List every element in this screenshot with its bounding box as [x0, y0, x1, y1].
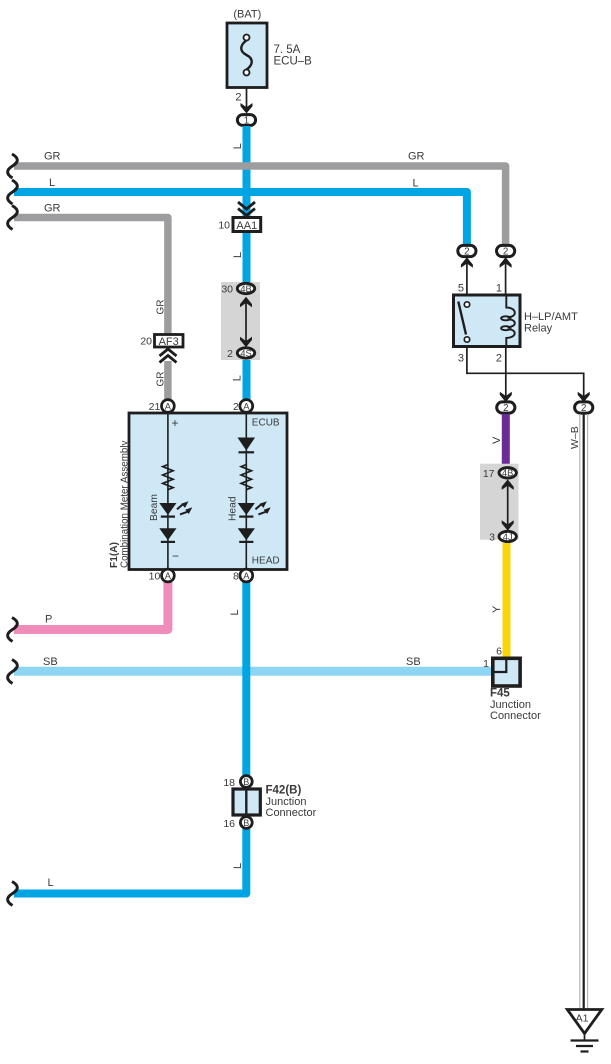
svg-text:A: A — [243, 571, 250, 581]
svg-text:(BAT): (BAT) — [233, 9, 261, 21]
wire W-B (white with black stripe) — [580, 414, 588, 1014]
svg-text:4B: 4B — [240, 284, 251, 294]
svg-text:A: A — [243, 402, 250, 412]
wire L vertical (4S to meter pin 2) — [243, 358, 251, 400]
wire pin5 — [466, 258, 468, 296]
SECTION: horizontal bus wires — [8, 126, 506, 894]
svg-text:GR: GR — [156, 300, 167, 315]
SECTION: meter — [109, 400, 287, 583]
wire pin1 — [505, 258, 507, 296]
svg-text:GR: GR — [44, 203, 61, 215]
resistor left (Beam) — [163, 465, 173, 490]
svg-text:L: L — [232, 143, 244, 149]
junction connector F45 box — [493, 658, 520, 686]
break squiggle P — [8, 618, 18, 642]
svg-text:18: 18 — [223, 777, 235, 789]
svg-text:10: 10 — [218, 220, 230, 232]
svg-text:3: 3 — [489, 532, 495, 544]
break squiggle GR second — [8, 206, 18, 230]
double chevron up below AF3 — [160, 349, 177, 363]
svg-text:L: L — [231, 375, 243, 381]
svg-text:Beam: Beam — [149, 494, 160, 521]
svg-text:1: 1 — [483, 658, 489, 670]
svg-text:3: 3 — [458, 353, 464, 365]
F45 inner quadrant mark — [495, 660, 507, 673]
break squiggle GR top — [8, 154, 18, 178]
wire pin2 down — [505, 347, 507, 398]
svg-text:HEAD: HEAD — [252, 555, 280, 566]
svg-text:SB: SB — [406, 656, 421, 668]
svg-text:Combination Meter Assembly: Combination Meter Assembly — [119, 440, 130, 568]
connector box AF3 — [155, 335, 184, 348]
pin 2 circle A — [240, 400, 253, 413]
svg-text:21: 21 — [149, 401, 161, 413]
svg-text:A: A — [165, 402, 172, 412]
svg-text:F45: F45 — [490, 688, 510, 700]
wire GR top row to relay — [14, 166, 506, 245]
diode D3 (right bottom) — [238, 528, 255, 542]
oval connector 4B (30) — [237, 283, 254, 293]
oval connector 2 (GR into relay pin 1) — [497, 245, 515, 256]
oval connector 2 (L into relay pin 5) — [458, 245, 476, 256]
oval connector 2 (V) — [497, 402, 515, 413]
pin B circle top F42 — [240, 776, 252, 788]
right branch wire — [245, 413, 247, 569]
wire V purple — [502, 414, 510, 467]
svg-text:L: L — [48, 877, 54, 889]
wire L horizontal row to relay — [14, 192, 467, 245]
diode D2 (left bottom) — [159, 528, 176, 542]
svg-text:H–LP/AMT: H–LP/AMT — [524, 311, 578, 323]
arrow down into oval (W-B) — [578, 392, 590, 403]
SECTION: fuse top — [227, 9, 312, 127]
svg-text:F42(B): F42(B) — [266, 785, 302, 797]
left branch wire — [167, 413, 169, 569]
svg-text:GR: GR — [44, 151, 61, 163]
wire GR (AF3 to meter pin 21) — [164, 361, 172, 400]
wire GR second row to AF3 — [14, 218, 168, 337]
pin 10 circle A — [162, 569, 175, 582]
oval connector 4J (3) — [499, 531, 516, 541]
svg-text:SB: SB — [43, 656, 58, 668]
relay coil — [501, 295, 515, 347]
arrow down into oval 1 — [241, 103, 253, 114]
oval connector 4S (2) — [237, 348, 254, 358]
connector box AA1 — [233, 218, 261, 232]
double chevron down above AA1 — [238, 202, 255, 216]
fuse element — [241, 40, 252, 69]
svg-text:6: 6 — [496, 646, 502, 658]
combination meter box F1(A) — [129, 413, 287, 570]
pin B circle bottom F42 — [240, 817, 252, 829]
svg-text:2: 2 — [496, 353, 502, 365]
svg-text:Relay: Relay — [524, 323, 553, 335]
double arrow between 4B and 4S — [245, 300, 247, 342]
F42 divider — [245, 789, 247, 815]
SECTION: bottom — [8, 609, 317, 905]
svg-text:4J: 4J — [503, 532, 513, 542]
wire SB horizontal (drawn under vertical L) — [14, 667, 493, 676]
svg-text:1: 1 — [496, 283, 502, 295]
svg-text:V: V — [491, 436, 503, 444]
oval connector 1 — [237, 115, 255, 126]
pin 8 circle A — [240, 569, 253, 582]
svg-text:L: L — [49, 177, 55, 189]
svg-text:ECUB: ECUB — [252, 417, 280, 428]
svg-text:30: 30 — [221, 284, 233, 296]
svg-text:Connector: Connector — [266, 807, 317, 819]
svg-text:1: 1 — [244, 115, 249, 126]
svg-text:AF3: AF3 — [159, 336, 179, 348]
wire pin3 to W-B oval — [467, 347, 584, 398]
relay H-LP/AMT box U1 — [454, 295, 521, 347]
wire L vertical-then-left (F42 to bottom edge) — [14, 829, 246, 894]
svg-text:L: L — [413, 178, 419, 190]
LED Head — [238, 501, 271, 516]
svg-text:2: 2 — [233, 401, 239, 413]
svg-text:L: L — [232, 252, 244, 258]
svg-text:Connector: Connector — [490, 710, 541, 722]
LED Beam — [159, 501, 192, 516]
wire L main vertical (fuse to 4B) — [243, 126, 251, 284]
diode D1 (right top) — [238, 438, 256, 453]
svg-text:L: L — [229, 609, 241, 615]
svg-text:B: B — [243, 777, 249, 787]
svg-text:A1: A1 — [576, 1013, 589, 1025]
ground A1 triangle — [567, 1010, 602, 1034]
SECTION: right column — [480, 414, 602, 1052]
wire L vertical (meter pin 8 down to F42) — [242, 580, 250, 776]
svg-text:8: 8 — [233, 571, 239, 583]
break squiggle L — [8, 180, 18, 204]
svg-text:4B: 4B — [502, 468, 513, 478]
fuse ECU-B box — [227, 23, 267, 88]
oval connector 4B (17) — [499, 468, 516, 478]
double arrow between 4B and 4J — [507, 485, 509, 526]
svg-text:2: 2 — [503, 403, 508, 414]
wire fuse to connector — [246, 88, 248, 109]
arrow down into oval (V) — [500, 392, 512, 403]
svg-text:Y: Y — [491, 605, 503, 613]
svg-text:2: 2 — [227, 348, 233, 360]
svg-text:20: 20 — [140, 336, 152, 348]
shaded connector block 4B/4S — [221, 282, 260, 360]
oval connector 2 (W-B) — [575, 402, 593, 413]
ground stub and hatches — [584, 1034, 586, 1041]
svg-text:7. 5A: 7. 5A — [274, 44, 301, 56]
relay switch contact — [458, 302, 466, 335]
svg-text:L: L — [232, 863, 244, 869]
junction connector F42 box — [233, 789, 260, 815]
pin 21 circle A — [162, 400, 175, 413]
svg-text:2: 2 — [464, 247, 469, 258]
svg-text:−: − — [172, 549, 179, 563]
svg-text:5: 5 — [458, 283, 464, 295]
shaded connector block 4B/4J — [480, 464, 519, 540]
svg-text:AA1: AA1 — [236, 220, 257, 232]
svg-text:Head: Head — [227, 496, 238, 521]
svg-text:17: 17 — [483, 468, 495, 480]
svg-text:B: B — [243, 818, 249, 828]
arrow up into oval (pin1) — [500, 257, 512, 268]
svg-text:2: 2 — [581, 403, 586, 414]
arrow up into oval (pin5) — [461, 257, 473, 268]
SECTION: relay — [454, 245, 593, 414]
svg-text:A: A — [165, 571, 172, 581]
wire P (meter pin 10 down-left) — [14, 580, 168, 630]
svg-text:P: P — [45, 614, 52, 626]
svg-text:4S: 4S — [240, 348, 251, 358]
svg-text:+: + — [172, 416, 179, 430]
svg-text:GR: GR — [408, 151, 425, 163]
svg-text:ECU–B: ECU–B — [274, 56, 313, 68]
svg-text:16: 16 — [223, 818, 235, 830]
resistor right (Head) — [241, 465, 251, 490]
svg-text:GR: GR — [156, 372, 167, 387]
svg-text:10: 10 — [149, 571, 161, 583]
svg-text:2: 2 — [235, 92, 241, 104]
svg-text:W–B: W–B — [569, 426, 581, 449]
svg-text:2: 2 — [503, 247, 508, 258]
break squiggle L bottom — [8, 882, 18, 906]
wire Y yellow — [503, 543, 511, 659]
break squiggle SB — [8, 660, 18, 684]
